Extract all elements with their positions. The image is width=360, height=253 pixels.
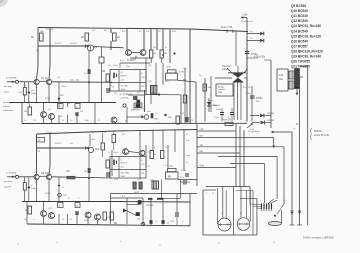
svg-text:10uH: 10uH xyxy=(179,72,184,74)
svg-text:2k: 2k xyxy=(76,206,78,208)
svg-text:low freq: low freq xyxy=(3,101,11,104)
svg-text:4700u: 4700u xyxy=(256,98,263,100)
svg-text:25A: 25A xyxy=(218,91,222,94)
svg-text:4u 10k/1M: 4u 10k/1M xyxy=(6,173,16,175)
svg-text:Q: Q xyxy=(134,156,136,158)
svg-text:Q13 BFC91, Re=240: Q13 BFC91, Re=240 xyxy=(291,24,321,28)
svg-text:1N4148: 1N4148 xyxy=(146,205,154,207)
svg-text:Q9 BC549: Q9 BC549 xyxy=(291,4,306,8)
svg-text:out: out xyxy=(186,139,189,142)
svg-text:BC557: BC557 xyxy=(55,43,62,45)
svg-text:100n: 100n xyxy=(214,117,220,119)
svg-text:Fuse 2.5A: Fuse 2.5A xyxy=(221,26,233,29)
svg-text:To speakers: To speakers xyxy=(248,130,261,133)
svg-text:BC557: BC557 xyxy=(121,76,128,78)
svg-text:Q16 BC549: Q16 BC549 xyxy=(291,39,308,43)
svg-text:Q1 Q2: Q1 Q2 xyxy=(41,78,48,80)
svg-text:toroid 35-0-35: toroid 35-0-35 xyxy=(314,134,330,137)
svg-text:Q11 BC549: Q11 BC549 xyxy=(291,14,308,18)
svg-text:100n: 100n xyxy=(172,123,178,125)
svg-text:L 10u: L 10u xyxy=(163,81,169,83)
svg-text:470R: 470R xyxy=(45,98,51,100)
svg-text:Q9 Q10: Q9 Q10 xyxy=(41,173,50,175)
svg-text:1k: 1k xyxy=(59,206,61,208)
svg-text:600VA: 600VA xyxy=(314,129,322,133)
svg-text:8R: 8R xyxy=(168,177,171,179)
svg-text:Q14 BC549: Q14 BC549 xyxy=(291,29,308,33)
svg-text:100p: 100p xyxy=(31,93,37,95)
svg-text:Q12 BC549: Q12 BC549 xyxy=(291,19,308,23)
svg-text:out: out xyxy=(200,135,204,138)
svg-text:L 10u: L 10u xyxy=(163,165,169,167)
svg-text:35-0-35: 35-0-35 xyxy=(243,87,251,89)
svg-text:48v: 48v xyxy=(92,139,95,141)
svg-text:240: 240 xyxy=(279,74,284,77)
svg-text:100n: 100n xyxy=(84,220,90,222)
svg-text:+35v: +35v xyxy=(242,14,248,17)
svg-text:R4 4k7: R4 4k7 xyxy=(70,43,78,45)
svg-text:100p: 100p xyxy=(31,188,37,190)
svg-text:cutout: cutout xyxy=(222,68,229,71)
svg-text:Q5 2SA: Q5 2SA xyxy=(121,85,129,88)
svg-text:1m: 1m xyxy=(84,171,87,173)
svg-text:Q10 BC549: Q10 BC549 xyxy=(291,9,308,13)
svg-text:Q20 TIP3055: Q20 TIP3055 xyxy=(291,60,310,64)
svg-text:Thermal comp: Thermal comp xyxy=(133,109,147,111)
svg-text:2k: 2k xyxy=(76,107,78,109)
svg-text:470R: 470R xyxy=(45,193,51,195)
svg-text:Q13 2SA: Q13 2SA xyxy=(121,172,130,175)
svg-text:C3 1n: C3 1n xyxy=(61,86,67,88)
svg-text:BC557: BC557 xyxy=(121,163,128,165)
svg-text:Thermal: Thermal xyxy=(222,65,231,68)
svg-text:+ heatsink: + heatsink xyxy=(120,96,129,99)
svg-text:5.6Hz version 1 SP100: 5.6Hz version 1 SP100 xyxy=(303,236,334,240)
svg-text:rectifier: rectifier xyxy=(218,88,225,91)
svg-text:R 10k: R 10k xyxy=(46,132,53,134)
svg-text:Gnd: Gnd xyxy=(200,166,205,168)
svg-text:input to: input to xyxy=(3,105,11,108)
svg-text:To other rail: To other rail xyxy=(241,20,253,23)
svg-text:100n: 100n xyxy=(216,109,222,111)
svg-text:low freq: low freq xyxy=(4,180,12,183)
svg-text:50Hz: 50Hz xyxy=(246,93,251,95)
svg-text:low freq: low freq xyxy=(4,85,12,88)
svg-text:Q17 BC557: Q17 BC557 xyxy=(291,44,308,48)
svg-text:Q15 BFC29, Re=220: Q15 BFC29, Re=220 xyxy=(291,34,321,38)
svg-text:10k + 10k: 10k + 10k xyxy=(70,80,80,82)
svg-text:100p: 100p xyxy=(113,65,119,67)
svg-text:Q12: Q12 xyxy=(95,149,100,151)
svg-text:10R: 10R xyxy=(156,123,160,125)
svg-text:R 100: R 100 xyxy=(127,59,134,62)
svg-text:Bridge: Bridge xyxy=(218,86,225,89)
svg-text:4u 10k/1M: 4u 10k/1M xyxy=(6,78,16,80)
svg-text:10R: 10R xyxy=(170,221,174,223)
svg-text:0R22: 0R22 xyxy=(150,180,156,182)
svg-text:subwoofer: subwoofer xyxy=(3,109,13,112)
svg-text:out: out xyxy=(200,150,204,153)
svg-text:100p: 100p xyxy=(113,152,119,154)
svg-text:Q18 BFC319, Re=220: Q18 BFC319, Re=220 xyxy=(291,49,323,53)
svg-text:Fuse 2A: Fuse 2A xyxy=(222,119,231,122)
svg-text:input: input xyxy=(4,91,9,94)
svg-text:0R22: 0R22 xyxy=(150,93,156,95)
svg-text:1N5404: 1N5404 xyxy=(212,105,220,107)
svg-text:100n: 100n xyxy=(84,120,90,122)
svg-text:BC557: BC557 xyxy=(55,143,62,145)
svg-text:10uH: 10uH xyxy=(181,170,186,172)
svg-text:Q19 BFC99, Re=240: Q19 BFC99, Re=240 xyxy=(291,55,321,59)
svg-text:1m: 1m xyxy=(84,73,87,75)
svg-text:input R: input R xyxy=(4,186,11,189)
svg-text:R2 10k: R2 10k xyxy=(46,29,54,31)
